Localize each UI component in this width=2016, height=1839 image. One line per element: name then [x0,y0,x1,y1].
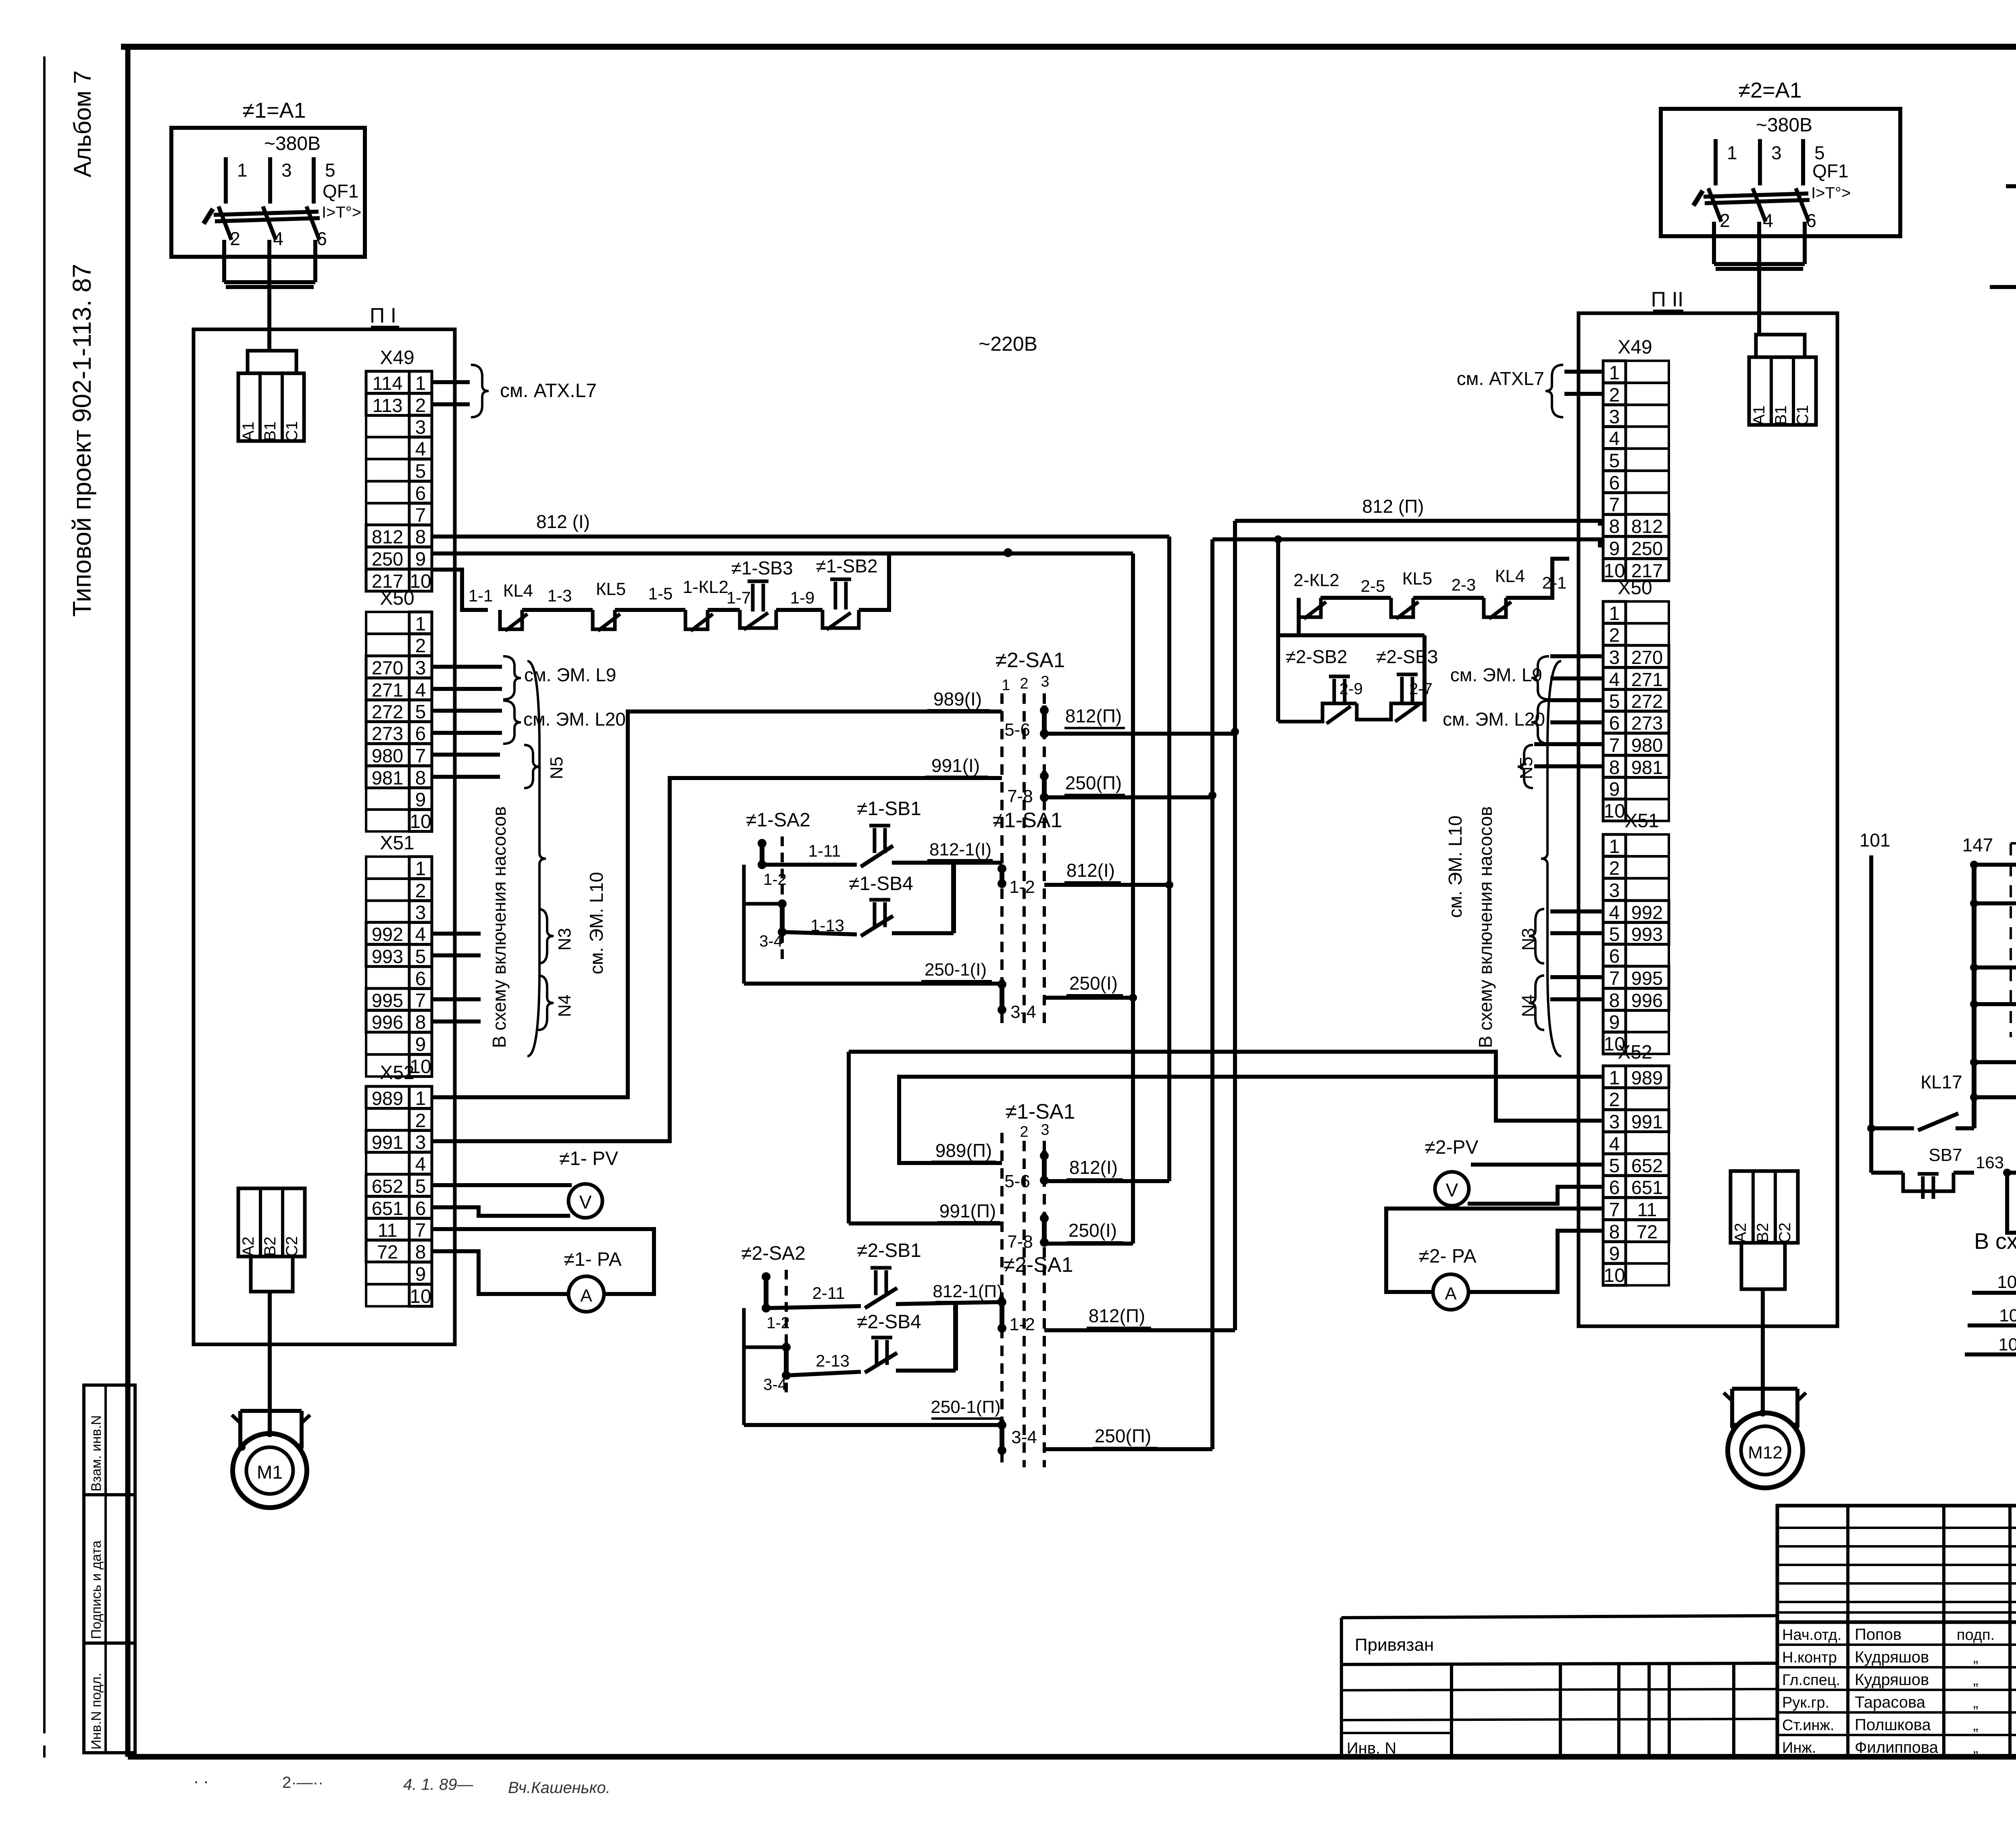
svg-text:N4: N4 [1518,994,1538,1017]
circuit breaker QF1 (left) [224,157,228,204]
svg-text:П II: П II [1651,288,1684,311]
svg-text:250: 250 [372,548,403,570]
svg-text:7-8: 7-8 [1007,1232,1033,1252]
wire to motor M1 [268,1292,272,1435]
svg-text:А: А [580,1286,592,1306]
wires X51-ПII pins 7,8 node N4 [1550,975,1603,979]
svg-text:1-11: 1-11 [808,841,841,860]
svg-text:5: 5 [325,160,335,181]
svg-text:Н.контр: Н.контр [1782,1649,1837,1666]
svg-text:3: 3 [1041,1121,1049,1138]
rung 1: contact 5с-4с [1970,861,1978,869]
svg-text:9: 9 [1609,779,1620,800]
svg-text:6: 6 [415,968,426,990]
svg-text:995: 995 [1631,967,1663,989]
svg-text:1: 1 [1727,142,1737,163]
svg-text:QF1: QF1 [1812,160,1848,181]
svg-text:651: 651 [1631,1177,1663,1198]
svg-text:5: 5 [1609,450,1620,472]
wire drop from 250(П) to SB chain [1276,539,1280,722]
svg-text:В2: В2 [1754,1223,1772,1243]
svg-text:992: 992 [1631,902,1663,923]
svg-text:980: 980 [1631,734,1663,756]
svg-text:271: 271 [372,679,403,701]
terminal block A1 B1 C1 (panel ПI) [248,351,296,373]
svg-text:3: 3 [1609,406,1620,428]
svg-text:6: 6 [317,228,327,249]
svg-text:114: 114 [373,372,403,394]
svg-text:В схему включения насосов: В схему включения насосов [489,806,510,1048]
wires X50-ПI pins 5,6 to ЭМ.L20 [432,709,502,713]
svg-text:X51: X51 [380,832,414,854]
motor M1 [240,1409,302,1413]
svg-text:1: 1 [1002,677,1010,694]
svg-text:X50: X50 [380,588,414,609]
svg-text:QF1: QF1 [323,181,358,202]
svg-text:~380В: ~380В [1756,114,1812,136]
svg-text:7: 7 [415,745,426,767]
svg-text:996: 996 [1631,990,1663,1011]
svg-text:≠1-SВ1: ≠1-SВ1 [857,798,921,820]
svg-text:В1: В1 [261,422,279,441]
svg-text:9: 9 [415,789,426,811]
wire 989(П) from X52-ПII pin1 [899,1077,1603,1163]
svg-text:2-13: 2-13 [816,1351,850,1370]
svg-text:2-11: 2-11 [812,1284,845,1302]
svg-text:Взам. инв.N: Взам. инв.N [89,1415,104,1492]
svg-text:Филиппова: Филиппова [1855,1739,1939,1756]
svg-text:1-КL2: 1-КL2 [683,577,729,597]
svg-text:250-1(I): 250-1(I) [925,960,987,980]
svg-text:3: 3 [1609,1111,1620,1133]
svg-text:≠2-SA2: ≠2-SA2 [741,1243,806,1264]
brace В схему включения насосов (ПII) [1541,661,1561,1056]
svg-text:1: 1 [1609,836,1620,857]
svg-text:6: 6 [1609,946,1620,967]
svg-text:~380В: ~380В [264,133,321,154]
svg-text:250(П): 250(П) [1095,1425,1151,1446]
svg-text:8: 8 [1609,1221,1620,1243]
svg-text:7: 7 [1609,735,1620,756]
svg-text:4. 1. 89—: 4. 1. 89— [403,1776,473,1793]
svg-text:3: 3 [1771,142,1782,163]
svg-text:1-2: 1-2 [1009,877,1035,897]
svg-text:2: 2 [1020,675,1028,692]
svg-text:N3: N3 [1518,928,1538,951]
svg-text:1-3: 1-3 [548,586,572,605]
wire riser 250(I) [1131,553,1135,1244]
svg-text:4: 4 [415,439,426,460]
wires X50-ПII pins 3,4 to ЭМ.L9 [1550,654,1603,658]
svg-text:X52: X52 [380,1062,414,1084]
svg-text:812: 812 [372,526,403,547]
svg-text:271: 271 [1631,669,1663,690]
svg-text:1: 1 [415,1088,426,1109]
svg-text:5: 5 [1609,1155,1620,1177]
wire riser 812(П) [1233,521,1237,1330]
wire 250(I) from X49-ПI pin9 [432,551,1133,555]
svg-text:7: 7 [415,505,426,526]
svg-text:~220В: ~220В [979,333,1037,355]
svg-text:≠2-SВ4: ≠2-SВ4 [857,1311,921,1333]
svg-text:3: 3 [1041,673,1049,690]
wire 250-1(П) [742,1308,746,1425]
svg-text:6: 6 [1609,472,1620,494]
svg-text:989(П): 989(П) [935,1140,992,1161]
svg-text:993: 993 [1631,924,1663,945]
svg-text:113: 113 [373,395,403,416]
svg-text:см. АТХL7: см. АТХL7 [1457,368,1544,389]
svg-text:Гл.спец.: Гл.спец. [1782,1672,1840,1689]
wire 250(П) to X49-ПII pin9 [1212,537,1603,541]
svg-text:2-9: 2-9 [1339,680,1363,698]
svg-text:„: „ [1973,1717,1979,1734]
svg-text:2: 2 [415,395,426,416]
svg-text:1: 1 [1609,603,1620,624]
svg-text:991(I): 991(I) [931,755,980,776]
svg-text:4: 4 [415,924,426,945]
wire to motor M12 [1761,1289,1765,1415]
svg-text:270: 270 [1631,647,1663,668]
svg-text:989: 989 [1631,1067,1663,1088]
svg-text:А2: А2 [1732,1223,1749,1243]
svg-text:9: 9 [1609,538,1620,560]
svg-text:2-1: 2-1 [1542,573,1567,592]
svg-text:991: 991 [1631,1111,1663,1132]
svg-text:5: 5 [1609,691,1620,712]
svg-text:3: 3 [281,160,292,181]
svg-text:3-4: 3-4 [1010,1002,1036,1022]
svg-text:3: 3 [415,902,426,924]
wire riser 250(П) [1210,539,1214,1449]
svg-text:3-4: 3-4 [759,932,783,950]
svg-text:72: 72 [1637,1221,1658,1242]
svg-text:„: „ [1973,1739,1979,1756]
svg-text:981: 981 [372,767,403,788]
svg-text:Попов: Попов [1855,1626,1901,1643]
wires X50-ПII pins 5,6 to ЭМ.L20 [1550,698,1603,702]
svg-text:270: 270 [372,657,403,678]
svg-text:С1: С1 [283,421,301,441]
svg-text:Привязан: Привязан [1355,1635,1434,1655]
svg-text:≠1-SВ2: ≠1-SВ2 [816,555,877,576]
svg-text:3: 3 [415,417,426,438]
svg-text:см. ЭМ. L9: см. ЭМ. L9 [1450,664,1542,685]
svg-text:4: 4 [273,228,283,249]
svg-text:1-2: 1-2 [763,871,787,888]
svg-text:991: 991 [372,1132,403,1153]
svg-text:989(I): 989(I) [933,689,982,709]
svg-text:N5: N5 [1516,757,1536,779]
svg-text:989: 989 [372,1088,403,1109]
stamp box Инв.№ подл. [84,1643,135,1753]
svg-text:4: 4 [1609,669,1620,691]
svg-text:250(I): 250(I) [1068,1220,1117,1241]
svg-text:Рук.гр.: Рук.гр. [1782,1694,1829,1711]
svg-text:Альбом 7: Альбом 7 [69,71,96,177]
svg-text:2: 2 [1609,1089,1620,1111]
svg-text:147: 147 [1962,834,1993,855]
stamp box Взам.инв.№ [84,1385,135,1495]
svg-text:1: 1 [1609,1067,1620,1089]
svg-text:7: 7 [1609,968,1620,989]
wires X50-ПI pins 3,4 to ЭМ.L9 [432,665,502,669]
svg-text:≠2-SВ2: ≠2-SВ2 [1285,646,1347,667]
sheet frame border [121,44,2016,50]
wires X50-ПI pins 7,8 node N5 [432,753,500,757]
svg-text:Инв.N подл.: Инв.N подл. [89,1673,104,1750]
svg-text:≠1=A1: ≠1=A1 [242,98,306,123]
svg-text:SВ7: SВ7 [1929,1145,1962,1165]
svg-text:≠2- РА: ≠2- РА [1418,1246,1476,1267]
svg-text:2: 2 [415,880,426,902]
rung 2: contact 8а-7а and KL14 self-hold [1970,899,1978,907]
title block revision table [1777,1506,2016,1622]
svg-text:1-1: 1-1 [469,586,493,605]
svg-text:Нач.отд.: Нач.отд. [1782,1627,1841,1643]
svg-text:КL5: КL5 [1402,569,1433,589]
svg-text:5-6: 5-6 [1004,720,1030,740]
svg-text:Тарасова: Тарасова [1855,1693,1926,1711]
svg-text:5: 5 [415,1176,426,1197]
svg-text:4: 4 [1609,1134,1620,1155]
svg-text:М1: М1 [257,1462,283,1483]
svg-text:см. АТХ.L7: см. АТХ.L7 [500,380,597,402]
svg-text:651: 651 [372,1198,403,1219]
wire riser 812(I) [1167,537,1171,1181]
svg-text:273: 273 [1631,712,1663,734]
svg-text:1: 1 [1609,362,1620,384]
rung 4: contact 9с-8с and KL15 self-hold [1970,1000,1978,1008]
svg-text:10: 10 [410,1286,431,1307]
svg-text:Кудряшов: Кудряшов [1855,1671,1929,1689]
stamp box Подпись и дата [84,1495,135,1643]
svg-text:С2: С2 [283,1236,301,1257]
svg-text:С1: С1 [1794,405,1812,425]
svg-text:X50: X50 [1618,577,1652,599]
svg-text:812(I): 812(I) [1069,1157,1118,1178]
svg-text:5: 5 [415,461,426,482]
rung 3: contact 5в-4в and KT6 contact to KL15 [1970,963,1978,972]
terminal block A2 B2 C2 (panel ПII) [1731,1171,1798,1243]
svg-text:Полшкова: Полшкова [1855,1716,1931,1734]
svg-text:А1: А1 [1750,406,1768,425]
svg-text:812 (П): 812 (П) [1362,496,1424,517]
wires X49-ПII pins 1,2 to АТХ.L7 [1564,370,1603,374]
svg-text:2: 2 [415,1110,426,1132]
svg-text:3-4: 3-4 [763,1376,787,1394]
svg-text:„: „ [1973,1672,1979,1689]
svg-text:≠2=A1: ≠2=A1 [1738,78,1801,102]
svg-text:2-КL2: 2-КL2 [1293,570,1339,590]
svg-text:993: 993 [372,946,403,967]
svg-text:812(I): 812(I) [1066,860,1115,881]
svg-text:7: 7 [415,1220,426,1241]
svg-text:3-4: 3-4 [1011,1427,1037,1447]
svg-text:I>T°>: I>T°> [322,204,361,221]
svg-text:2·—··: 2·—·· [282,1774,323,1791]
svg-text:А: А [1445,1284,1457,1304]
svg-text:4: 4 [1609,902,1620,924]
svg-text:980: 980 [372,745,403,766]
svg-text:КL5: КL5 [596,579,626,599]
wire 217 chain to X49-ПII pin10 [1528,559,1569,598]
wire chain to node [859,552,889,610]
svg-text:В схему ЭМ L10: В схему ЭМ L10 [1974,1228,2016,1254]
svg-text:9: 9 [1609,1243,1620,1265]
svg-text:≠2-SA1: ≠2-SA1 [1003,1253,1073,1277]
svg-text:Инж.: Инж. [1782,1739,1816,1756]
svg-text:А1: А1 [240,422,257,441]
wires X50-ПII pins 7,8 node N5 [1534,742,1603,746]
svg-text:V: V [1446,1180,1458,1200]
svg-text:3: 3 [415,657,426,679]
svg-text:6: 6 [415,483,426,504]
svg-text:5-6: 5-6 [1004,1171,1030,1191]
svg-text:995: 995 [372,990,403,1011]
svg-text:812-1(I): 812-1(I) [929,840,991,859]
svg-text:250-1(П): 250-1(П) [931,1397,1000,1417]
wires X51-ПI pins 4,5 node N3 [432,932,481,936]
svg-text:2-7: 2-7 [1409,680,1433,698]
svg-text:2: 2 [1609,625,1620,646]
svg-text:109: 109 [1997,1272,2016,1292]
svg-text:1-9: 1-9 [790,588,815,607]
svg-text:П I: П I [370,304,396,327]
svg-text:7-8: 7-8 [1007,786,1033,806]
svg-text:≠2-РV: ≠2-РV [1425,1137,1478,1158]
svg-text:Типовой проект 902-1-113. 87: Типовой проект 902-1-113. 87 [67,264,96,617]
stamp Привязан table [1341,1616,1777,1618]
svg-text:2: 2 [1720,210,1730,231]
svg-text:109: 109 [1998,1335,2016,1354]
svg-text:≠1-SВ4: ≠1-SВ4 [849,873,913,895]
svg-text:≠1- PV: ≠1- PV [559,1148,618,1169]
wire chain left end [1297,598,1301,635]
svg-text:3: 3 [1609,880,1620,901]
svg-text:X49: X49 [380,347,414,368]
svg-text:10: 10 [1604,1265,1625,1286]
svg-text:I>T°>: I>T°> [1811,184,1851,202]
svg-text:8: 8 [1609,757,1620,778]
motor M12 [1732,1387,1797,1391]
svg-text:6: 6 [415,1198,426,1219]
svg-text:1: 1 [415,614,426,635]
svg-text:250: 250 [1631,538,1663,559]
svg-text:10: 10 [410,811,431,832]
svg-text:9: 9 [415,1034,426,1055]
svg-text:652: 652 [1631,1155,1663,1176]
svg-text:2: 2 [230,228,240,249]
svg-text:Кудряшов: Кудряшов [1855,1648,1929,1666]
svg-text:8: 8 [1609,990,1620,1011]
svg-text:4: 4 [415,1154,426,1175]
svg-text:812(П): 812(П) [1089,1305,1145,1326]
svg-text:см. ЭМ. L20: см. ЭМ. L20 [1443,709,1545,730]
svg-text:2-3: 2-3 [1452,575,1476,594]
svg-text:≠1-SA2: ≠1-SA2 [746,809,810,831]
svg-text:см. ЭМ. L10: см. ЭМ. L10 [1445,815,1466,918]
svg-text:X49: X49 [1618,337,1652,358]
wire 989(I) from X52-ПI pin1 [432,711,1002,1097]
svg-text:5: 5 [415,946,426,967]
wire QF1-2 down to terminals [1712,222,1716,264]
svg-text:273: 273 [372,723,403,744]
svg-text:8: 8 [415,768,426,789]
svg-text:8: 8 [415,1242,426,1263]
svg-text:X52: X52 [1618,1042,1652,1063]
svg-text:КL4: КL4 [503,581,533,601]
svg-text:В1: В1 [1772,406,1790,425]
svg-text:М12: М12 [1748,1443,1783,1462]
svg-text:812-1(П): 812-1(П) [933,1281,1002,1301]
svg-text:Инв. N: Инв. N [1347,1739,1396,1757]
svg-text:1: 1 [415,858,426,880]
svg-text:1-7: 1-7 [727,588,751,607]
svg-text:2: 2 [1609,858,1620,879]
svg-text:3: 3 [1609,647,1620,668]
svg-text:6: 6 [1609,1177,1620,1198]
svg-text:272: 272 [372,701,403,722]
wire 991(П) from X52-ПII pin3 [849,1052,1603,1121]
svg-text:≠1-SA1: ≠1-SA1 [992,809,1062,832]
svg-text:1-2: 1-2 [766,1314,790,1332]
wire QF1-1 down to terminals [222,240,226,282]
svg-text:250(П): 250(П) [1065,772,1122,793]
svg-text:3: 3 [415,1132,426,1153]
wires X51-ПI pins 7,8 node N4 [432,997,481,1001]
wire 217 chain from X49-ПI pin10 [432,570,488,610]
svg-text:N3: N3 [555,928,575,951]
svg-text:9: 9 [415,549,426,570]
svg-text:2: 2 [415,635,426,657]
wires X49-ПI pins 1,2 to АТХ.L7 [432,380,470,384]
svg-text:109: 109 [1999,1306,2016,1325]
svg-text:272: 272 [1631,691,1663,712]
svg-text:7: 7 [415,990,426,1011]
svg-text:11: 11 [1637,1199,1657,1220]
svg-text:8: 8 [415,1012,426,1033]
svg-text:Ст.инж.: Ст.инж. [1782,1717,1834,1734]
svg-text:10: 10 [1604,801,1625,822]
terminal block A2 B2 C2 (panel ПI) [238,1188,305,1257]
svg-text:6: 6 [415,723,426,745]
svg-text:А2: А2 [240,1237,257,1257]
svg-text:· ·: · · [194,1772,209,1790]
svg-text:подп.: подп. [1957,1627,1995,1643]
svg-text:≠1- РА: ≠1- РА [564,1249,621,1270]
svg-text:В2: В2 [261,1237,279,1257]
svg-text:1: 1 [237,160,248,181]
svg-text:„: „ [1973,1649,1979,1666]
contact KT6 bypass [2007,1173,2016,1233]
svg-text:9: 9 [1609,1012,1620,1033]
svg-text:7: 7 [1609,494,1620,516]
svg-text:≠2-SВ1: ≠2-SВ1 [857,1240,921,1261]
svg-text:1: 1 [415,373,426,394]
svg-text:Вч.Кашенько.: Вч.Кашенько. [508,1779,610,1797]
svg-text:981: 981 [1631,757,1663,778]
svg-text:1-2: 1-2 [1009,1315,1035,1334]
svg-text:5: 5 [1609,924,1620,945]
svg-text:991(П): 991(П) [939,1200,996,1221]
wires X51-ПII pins 4,5 node N3 [1550,909,1603,913]
svg-text:В схему включения насосов: В схему включения насосов [1475,806,1496,1048]
svg-text:72: 72 [377,1241,398,1263]
svg-text:1-5: 1-5 [648,584,673,603]
svg-text:652: 652 [372,1175,403,1197]
svg-text:КL17: КL17 [1920,1071,1962,1092]
